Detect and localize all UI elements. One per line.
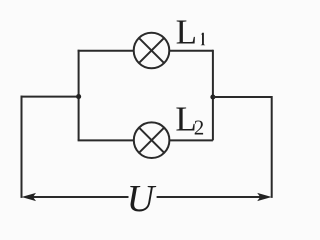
- node junction right (dot): [210, 94, 215, 99]
- wire left horizontal to node: [21, 96, 79, 98]
- wire right branch vertical: [212, 50, 214, 141]
- svg-text:L: L: [176, 13, 197, 52]
- wire top branch left: [78, 50, 134, 52]
- wire bottom branch right: [169, 139, 213, 141]
- voltage arrow line right segment: [157, 196, 261, 198]
- arrowhead right: [257, 193, 272, 201]
- wire left vertical: [21, 96, 23, 198]
- wire right vertical: [271, 96, 273, 198]
- wire left branch vertical: [78, 50, 80, 141]
- lamp L2: [134, 122, 170, 158]
- svg-text:U: U: [127, 178, 157, 220]
- arrowhead left: [22, 193, 37, 201]
- lamp L1: [134, 33, 170, 69]
- wire bottom branch left: [78, 139, 134, 141]
- svg-text:2: 2: [194, 116, 205, 140]
- voltage arrow line left segment: [33, 196, 129, 198]
- label L2: [175, 99, 204, 139]
- label L1: [176, 13, 206, 52]
- node junction left (dot): [76, 94, 81, 99]
- wire top branch right: [169, 50, 213, 52]
- wire right horizontal from node: [213, 96, 272, 98]
